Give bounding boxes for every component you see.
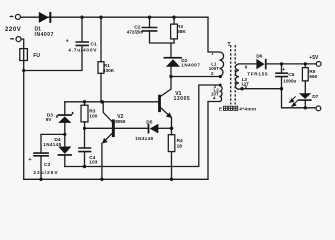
svg-text:2: 2 [211, 71, 214, 76]
svg-text:R3: R3 [89, 109, 95, 115]
svg-text:1N4007: 1N4007 [181, 63, 200, 68]
wire fuse to bottom rail [23, 61, 25, 180]
wire C1 top lead [81, 17, 83, 42]
svg-text:FU: FU [33, 53, 40, 59]
capacitor C2 [142, 28, 158, 31]
svg-text:13005: 13005 [174, 96, 191, 102]
LED D7 [298, 93, 312, 101]
svg-text:+: + [282, 67, 285, 73]
wire R2 bottom lead [173, 39, 175, 43]
wire D7 cathode lead [304, 101, 306, 108]
wire C2 top lead [149, 17, 151, 27]
wire rail corner up to transformer pin4 [208, 102, 220, 180]
diode D1 [39, 12, 52, 23]
svg-text:D6: D6 [256, 53, 262, 59]
capacitor C5 [275, 73, 288, 76]
resistor R3 [81, 105, 88, 122]
svg-text:68K: 68K [177, 29, 186, 35]
input terminal lower [16, 37, 21, 42]
wire R2 top lead [173, 17, 175, 24]
wire pin5 to C5 bottom [239, 88, 282, 90]
transistor V1 13005 [158, 95, 172, 118]
wire bottom rail [24, 178, 208, 180]
diode D2 [164, 57, 182, 67]
wire V2 emitter to rail [101, 143, 103, 179]
wire lower input terminal to fuse [21, 39, 24, 61]
svg-text:4.7u/400V: 4.7u/400V [68, 47, 97, 53]
wire D5 anode to V1 emitter line [158, 127, 171, 129]
wire R1 top lead [100, 17, 102, 62]
wire top rail [20, 16, 208, 18]
wire C4 bottom lead [84, 152, 86, 167]
svg-text:560: 560 [309, 74, 317, 80]
wire pin2 to D2 node [171, 76, 220, 78]
resistor R2 [171, 24, 178, 39]
transistor V2 8050 [102, 119, 115, 143]
resistor R4 [168, 135, 175, 152]
svg-text:4*4mm: 4*4mm [239, 107, 256, 112]
svg-text:100: 100 [89, 114, 97, 120]
label core type [219, 106, 256, 112]
svg-text:+5V: +5V [309, 55, 319, 61]
input terminal upper [15, 14, 20, 19]
svg-text:472/2kv: 472/2kv [127, 29, 144, 34]
wire R3 bottom to C4 [84, 122, 86, 148]
svg-text:IN4007: IN4007 [35, 32, 54, 38]
wire C2 bottom to R2 bottom [150, 31, 175, 43]
svg-text:9V: 9V [46, 117, 53, 123]
wire C1 bottom lead to fuse node [24, 45, 82, 70]
svg-text:1N4148: 1N4148 [135, 136, 153, 141]
svg-text:R1: R1 [104, 63, 110, 69]
svg-text:E: E [219, 107, 222, 112]
AC tilde lower [10, 38, 14, 41]
svg-text:C1: C1 [91, 42, 97, 48]
LED D7 emission arrows [290, 96, 298, 106]
resistor R5 [302, 68, 308, 81]
svg-text:22u/25V: 22u/25V [33, 170, 58, 176]
wire C5 top lead [281, 64, 283, 73]
diode D4 [58, 147, 72, 156]
svg-text:18: 18 [177, 144, 183, 150]
wire D2 anode to V1 collector [161, 67, 171, 97]
wire C5 bottom lead to output return [282, 77, 317, 108]
wire V2 base to D5 [115, 127, 148, 129]
wire R5 to D7 [304, 81, 306, 93]
svg-text:1N4148: 1N4148 [43, 142, 61, 147]
svg-text:D5: D5 [146, 119, 152, 125]
wire V1 emitter to R4 [171, 117, 173, 135]
svg-text:1000u: 1000u [283, 79, 296, 84]
svg-text:330K: 330K [103, 68, 115, 74]
wire D3 to D4 link [64, 123, 66, 147]
svg-text:TFR155: TFR155 [247, 72, 268, 77]
capacitor C4 [78, 148, 91, 152]
capacitor C1 [76, 42, 90, 45]
svg-text:R4: R4 [177, 138, 183, 144]
transformer winding L3 12T [235, 64, 239, 89]
wire D6 cathode to +5V terminal [266, 63, 316, 65]
wire C3 branch [41, 134, 65, 153]
zener D3 [56, 112, 73, 123]
wire C3 bottom lead [40, 156, 42, 179]
svg-text:8050: 8050 [115, 119, 126, 124]
wire V2 base left [85, 127, 112, 129]
resistor R1 [98, 62, 104, 74]
transformer winding L1 100T [220, 52, 224, 77]
svg-text:1: 1 [211, 50, 214, 55]
svg-text:D7: D7 [312, 94, 318, 100]
svg-text:103: 103 [89, 160, 97, 166]
wire R3 top lead [84, 102, 86, 105]
wire base drive line [65, 101, 158, 103]
output terminal +5V [316, 62, 321, 67]
svg-text:220V: 220V [5, 27, 21, 33]
capacitor C3 [33, 153, 49, 156]
wire A feedback line to pin3 [65, 85, 220, 167]
svg-text:T: T [228, 42, 231, 48]
wire V2 collector [103, 102, 112, 122]
wire D4 bottom lead [64, 156, 66, 167]
diode D6 TFR155 [256, 59, 266, 69]
fuse FU [20, 49, 28, 61]
svg-text:6: 6 [245, 64, 248, 69]
wire snubber to D2 cathode [170, 43, 172, 57]
output terminal return [316, 106, 321, 111]
wire rail corner to transformer pin1 [208, 17, 220, 52]
svg-text:+: + [66, 38, 69, 44]
transformer winding L2 10T [220, 86, 223, 102]
wire R5 top lead [304, 64, 306, 68]
wire V2 emitter diagonal [103, 134, 112, 143]
wire D3 top lead [64, 102, 66, 114]
transformer T core [231, 45, 236, 105]
svg-text:C5: C5 [288, 72, 294, 78]
wire V1 emitter diagonal [161, 108, 171, 117]
svg-text:C3: C3 [44, 162, 50, 168]
wire R4 bottom lead [171, 152, 173, 180]
wire R1 bottom lead [100, 73, 102, 102]
wire L3 top to D6 [239, 63, 256, 65]
diode D5 [148, 124, 159, 134]
svg-text:+: + [28, 157, 31, 163]
AC tilde upper [10, 15, 14, 18]
